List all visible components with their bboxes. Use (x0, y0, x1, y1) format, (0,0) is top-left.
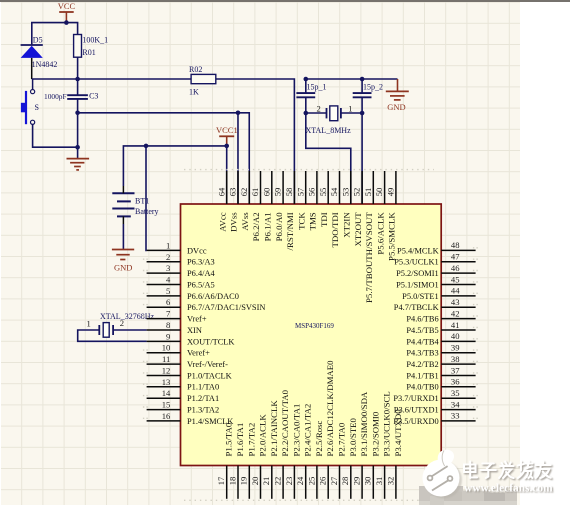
capacitor 15p_1 (296, 79, 326, 113)
svg-text:15: 15 (162, 400, 171, 410)
pin 40 (P4.4/TB4) (406, 331, 475, 346)
svg-text:MSP430F169: MSP430F169 (295, 322, 334, 330)
svg-text:3: 3 (166, 263, 170, 273)
svg-text:R01: R01 (82, 48, 95, 57)
svg-text:38: 38 (451, 354, 460, 364)
watermark logo (423, 450, 463, 499)
svg-text:1K: 1K (189, 87, 199, 96)
pin 53 (XT2IN) (340, 171, 351, 238)
svg-text:P1.2/TA1: P1.2/TA1 (187, 394, 219, 403)
svg-text:4: 4 (166, 275, 171, 285)
svg-text:P4.0/TB0: P4.0/TB0 (406, 383, 438, 392)
svg-text:49: 49 (386, 188, 396, 197)
power VCC (58, 1, 76, 22)
crystal XTAL_8MHz (306, 103, 363, 135)
svg-text:P2.4/CA1/TA2: P2.4/CA1/TA2 (303, 404, 313, 457)
svg-text:XT2IN: XT2IN (342, 212, 352, 238)
battery BT1 (112, 186, 158, 224)
resistor R01 (74, 35, 109, 80)
svg-text:47: 47 (451, 252, 460, 262)
svg-text:40: 40 (451, 331, 460, 341)
pin 35 (P3.7/URXD1) (393, 388, 475, 403)
pin 13 (P1.1/TA0) (147, 377, 220, 392)
wire crystal pin2 to XIN (pin 8) (113, 329, 147, 331)
svg-text:BT1: BT1 (135, 197, 149, 206)
svg-text:P4.4/TB4: P4.4/TB4 (406, 337, 439, 346)
node pin63 junction (236, 111, 241, 116)
svg-text:R02: R02 (189, 65, 202, 74)
pin 31 (P3.3/UCLK0/SCL) (374, 391, 392, 499)
svg-text:36: 36 (451, 377, 460, 387)
svg-text:P6.6/A6/DAC0: P6.6/A6/DAC0 (187, 292, 239, 301)
node R01/C3 junction (75, 77, 80, 82)
svg-text:54: 54 (329, 187, 339, 196)
ground (near C3) (67, 159, 90, 170)
svg-text:TDI: TDI (319, 212, 329, 227)
pin 24 (P2.4/CA1/TA2) (295, 404, 313, 499)
pin 7 (Vref+) (147, 309, 207, 324)
svg-text:32: 32 (385, 477, 395, 486)
svg-text:AVcc: AVcc (217, 212, 227, 231)
pin 21 (P2.1/TAINCLK) (261, 400, 279, 499)
svg-text:41: 41 (451, 320, 460, 330)
svg-text:34: 34 (451, 399, 460, 409)
pin 42 (P4.6/TB6) (406, 308, 475, 323)
pin 6 (P6.7/A7/DAC1/SVSIN) (147, 297, 266, 312)
pin 62 (AVss) (239, 171, 250, 231)
pin 30 (P3.2/SOMI0) (363, 411, 381, 499)
wire battery plus rail to pin 64 (123, 146, 226, 186)
watermark text 电子发烧友 (465, 463, 552, 480)
pin 38 (P4.2/TB2) (406, 354, 475, 369)
pin 26 (P2.6/ADC12CLK/DMAE0) (318, 360, 336, 499)
svg-text:60: 60 (261, 188, 271, 197)
pin 20 (P2.0/ACLK) (250, 414, 268, 499)
svg-text:1: 1 (166, 240, 170, 250)
svg-text:VCC1: VCC1 (216, 125, 238, 135)
pin 59 (P6.0/A0) (273, 171, 284, 241)
svg-text:P4.6/TB6: P4.6/TB6 (406, 315, 438, 324)
svg-text:P2.1/TAINCLK: P2.1/TAINCLK (269, 400, 279, 457)
svg-text:XIN: XIN (187, 326, 202, 335)
node VCC junction (64, 20, 69, 25)
svg-text:P6.7/A7/DAC1/SVSIN: P6.7/A7/DAC1/SVSIN (187, 303, 265, 312)
pin 11 (Vref-/Veref-) (147, 354, 228, 369)
svg-text:27: 27 (329, 476, 339, 485)
svg-text:www.elecfans.com: www.elecfans.com (464, 482, 553, 494)
pin 15 (P1.3/TA2) (147, 400, 220, 415)
resistor R02 (189, 65, 216, 96)
svg-text:9: 9 (166, 331, 170, 341)
svg-text:P5.6/ACLK: P5.6/ACLK (375, 212, 385, 255)
svg-text:P6.3/A3: P6.3/A3 (187, 258, 215, 267)
svg-text:P5.5/SMCLK: P5.5/SMCLK (387, 212, 397, 261)
svg-text:51: 51 (363, 188, 373, 197)
svg-text:37: 37 (451, 365, 460, 375)
svg-text:61: 61 (250, 188, 260, 197)
svg-text:P2.7/TA0: P2.7/TA0 (337, 422, 347, 456)
svg-text:P4.1/TB1: P4.1/TB1 (406, 371, 438, 380)
svg-text:P2.6/ADC12CLK/DMAE0: P2.6/ADC12CLK/DMAE0 (325, 360, 335, 457)
svg-text:P1.0/TACLK: P1.0/TACLK (187, 371, 232, 380)
svg-text:42: 42 (451, 308, 460, 318)
svg-text:P6.5/A5: P6.5/A5 (187, 280, 215, 289)
pin 14 (P1.2/TA1) (147, 388, 220, 403)
pin 12 (P1.0/TACLK) (147, 366, 232, 381)
svg-text:46: 46 (451, 263, 460, 273)
pin 60 (P6.1/A1) (261, 171, 272, 241)
pin 50 (P5.6/ACLK) (374, 171, 385, 255)
stub end grid dots (143, 170, 478, 501)
svg-text:/RST/NMI: /RST/NMI (285, 212, 295, 250)
wire DVss/AVss rail to pins 63,62 (78, 113, 250, 204)
pin 3 (P6.4/A4) (147, 263, 216, 278)
svg-text:52: 52 (352, 188, 362, 197)
svg-text:56: 56 (307, 187, 317, 196)
pin 44 (P5.0/STE1) (402, 286, 475, 301)
wire switch bottom to ground node (33, 124, 78, 147)
svg-text:35: 35 (451, 388, 460, 398)
pin 9 (XOUT/TCLK) (147, 331, 235, 346)
ground GND (battery) (112, 250, 134, 273)
svg-text:GND: GND (387, 102, 405, 112)
svg-text:30: 30 (363, 477, 373, 486)
svg-text:15p_1: 15p_1 (307, 83, 327, 92)
svg-text:TMS: TMS (308, 212, 318, 230)
svg-text:6: 6 (166, 297, 171, 307)
svg-text:33: 33 (451, 411, 460, 421)
pin 17 (P1.5/TA0) (216, 422, 234, 499)
svg-text:25: 25 (306, 477, 316, 486)
pin 16 (P1.4/SMCLK) (147, 411, 234, 426)
pin 34 (P3.6/UTXD1) (394, 399, 476, 414)
svg-text:17: 17 (216, 476, 226, 485)
svg-text:P4.3/TB3: P4.3/TB3 (406, 349, 438, 358)
svg-text:64: 64 (216, 187, 226, 196)
svg-text:P2.3/CA0/TA1: P2.3/CA0/TA1 (291, 404, 301, 457)
wire capacitor top rail (306, 78, 398, 80)
svg-text:100K_1: 100K_1 (82, 36, 108, 45)
svg-text:48: 48 (451, 240, 460, 250)
wire VCC rail (32, 23, 78, 45)
node pin1 drop junction (144, 144, 149, 149)
svg-text:31: 31 (374, 477, 384, 486)
svg-text:P3.0/STE0: P3.0/STE0 (348, 418, 358, 457)
svg-text:59: 59 (273, 188, 283, 197)
svg-text:43: 43 (451, 297, 460, 307)
wire ground drop (77, 113, 79, 159)
crystal XTAL_32768Hz (86, 312, 154, 337)
svg-text:14: 14 (162, 388, 171, 398)
svg-text:P1.3/TA2: P1.3/TA2 (187, 406, 219, 415)
svg-text:P3.7/URXD1: P3.7/URXD1 (393, 394, 438, 403)
pin 49 (P5.5/SMCLK) (386, 171, 397, 261)
svg-text:P2.0/ACLK: P2.0/ACLK (258, 414, 268, 457)
svg-text:TDO/TDI: TDO/TDI (330, 212, 340, 247)
svg-text:1N4842: 1N4842 (32, 60, 58, 69)
svg-text:15p_2: 15p_2 (363, 83, 383, 92)
pin 61 (P6.2/A2) (250, 171, 261, 241)
svg-text:AVss: AVss (240, 212, 250, 231)
pin 8 (XIN) (147, 320, 202, 335)
node C3 bottom junction (75, 111, 80, 116)
capacitor C3 (44, 79, 98, 113)
svg-text:XTAL_8MHz: XTAL_8MHz (306, 126, 352, 135)
pin 29 (P3.1/SIMO0/SDA) (352, 391, 370, 499)
switch S (21, 79, 39, 124)
pin 45 (P5.1/SIMO1) (396, 274, 475, 289)
wire R02 to pin 58 (/RST/NMI) (216, 79, 295, 204)
svg-text:5: 5 (166, 286, 170, 296)
svg-text:10: 10 (162, 343, 171, 353)
pin 28 (P3.0/STE0) (340, 418, 358, 499)
pin 64 (AVcc) (216, 171, 227, 232)
pin 33 (P3.5/URXD0) (393, 411, 475, 426)
node 15p_1 top junction (304, 77, 309, 82)
svg-text:8: 8 (166, 320, 170, 330)
pin 2 (P6.3/A3) (147, 252, 215, 267)
pin 63 (DVss) (228, 171, 239, 232)
svg-text:VCC: VCC (58, 1, 76, 11)
node VCC1/pin64 junction (224, 144, 229, 149)
svg-text:Vref-/Veref-: Vref-/Veref- (187, 360, 228, 369)
pin 1 (DVcc) (147, 240, 207, 255)
svg-text:21: 21 (261, 477, 271, 486)
node crystal right junction (360, 111, 365, 116)
svg-text:20: 20 (250, 477, 260, 486)
pin 27 (P2.7/TA0) (329, 422, 347, 499)
svg-text:29: 29 (352, 477, 362, 486)
svg-text:P5.0/STE1: P5.0/STE1 (402, 292, 439, 301)
diode D5 (21, 36, 58, 79)
svg-text:1000pF: 1000pF (44, 92, 67, 101)
pin 48 (P5.4/MCLK) (397, 240, 476, 255)
pin 46 (P5.2/SOMI1) (396, 263, 475, 278)
svg-text:XOUT/TCLK: XOUT/TCLK (187, 337, 234, 346)
pin 43 (P4.7/TBCLK) (394, 297, 476, 312)
wire crystal left to pin 53 (306, 113, 351, 204)
svg-text:2: 2 (317, 103, 321, 113)
svg-text:16: 16 (162, 411, 171, 421)
svg-text:P6.0/A0: P6.0/A0 (274, 212, 284, 242)
svg-text:P3.1/SIMO0/SDA: P3.1/SIMO0/SDA (359, 391, 369, 456)
svg-text:P3.4/UTXD0: P3.4/UTXD0 (393, 409, 403, 457)
node 15p_2 top junction (360, 77, 365, 82)
svg-text:P5.7/TBOUTH/SVSOUT: P5.7/TBOUTH/SVSOUT (364, 212, 374, 303)
svg-text:TCK: TCK (296, 212, 306, 230)
svg-text:P1.7/TA2: P1.7/TA2 (246, 423, 256, 457)
pin 36 (P4.0/TB0) (406, 377, 475, 392)
wire node-A rail (RST node) (32, 78, 191, 80)
svg-text:XTAL_32768Hz: XTAL_32768Hz (100, 312, 154, 321)
svg-text:Veref+: Veref+ (187, 349, 210, 358)
power VCC1 (216, 125, 238, 144)
svg-text:23: 23 (284, 477, 294, 486)
svg-text:Vref+: Vref+ (187, 315, 207, 324)
svg-text:P2.2/CAOUT/TA0: P2.2/CAOUT/TA0 (280, 389, 290, 456)
svg-text:28: 28 (340, 477, 350, 486)
svg-text:2: 2 (166, 252, 170, 262)
svg-text:39: 39 (451, 343, 460, 353)
svg-text:DVcc: DVcc (187, 246, 207, 255)
svg-text:7: 7 (166, 309, 171, 319)
svg-text:P6.2/A2: P6.2/A2 (251, 212, 261, 241)
wire crystal pin1 to XOUT (pin 9) (78, 330, 147, 341)
svg-text:55: 55 (318, 188, 328, 197)
svg-text:63: 63 (228, 188, 238, 197)
svg-text:1: 1 (348, 103, 352, 113)
svg-text:P5.3/UCLK1: P5.3/UCLK1 (394, 258, 438, 267)
pin 25 (P2.5/Rosc) (306, 420, 324, 498)
svg-text:S: S (35, 103, 39, 112)
svg-text:44: 44 (451, 286, 460, 296)
censored gray blocks (419, 486, 517, 505)
pin 5 (P6.6/A6/DAC0) (147, 286, 239, 301)
pin 57 (TCK) (295, 171, 306, 230)
node switch/ground junction (75, 145, 80, 150)
capacitor 15p_2 (353, 79, 383, 113)
svg-text:24: 24 (295, 476, 305, 485)
pin 58 (/RST/NMI) (284, 171, 295, 250)
svg-text:P1.5/TA0: P1.5/TA0 (224, 422, 234, 456)
svg-text:57: 57 (295, 187, 305, 196)
node crystal left junction (304, 111, 309, 116)
wire battery minus to ground (122, 224, 124, 250)
wire crystal right to pin 52 (361, 113, 363, 204)
svg-text:P5.2/SOMI1: P5.2/SOMI1 (396, 269, 439, 278)
svg-text:DVss: DVss (229, 212, 239, 232)
pin 51 (P5.7/TBOUTH/SVSOUT) (363, 171, 374, 303)
svg-text:53: 53 (340, 188, 350, 197)
svg-text:62: 62 (239, 188, 249, 197)
wire pin 1 (DVcc) drop (145, 146, 148, 251)
pin 32 (P3.4/UTXD0) (385, 409, 403, 499)
svg-text:P6.4/A4: P6.4/A4 (187, 269, 216, 278)
watermark text www.elecfans.com (464, 482, 554, 495)
svg-text:P2.5/Rosc: P2.5/Rosc (314, 420, 324, 456)
op-amp/microcontroller U1 MSP430F169 (181, 204, 442, 466)
svg-text:11: 11 (162, 354, 170, 364)
svg-text:22: 22 (273, 477, 283, 486)
svg-text:P4.7/TBCLK: P4.7/TBCLK (394, 303, 439, 312)
svg-text:P5.4/MCLK: P5.4/MCLK (397, 246, 439, 255)
pin 10 (Veref+) (147, 343, 211, 358)
pin 54 (TDO/TDI) (329, 171, 340, 247)
svg-text:P3.2/SOMI0: P3.2/SOMI0 (370, 411, 380, 456)
pin 55 (TDI) (318, 171, 329, 227)
svg-text:P4.5/TB5: P4.5/TB5 (406, 326, 438, 335)
svg-text:P5.1/SIMO1: P5.1/SIMO1 (396, 280, 439, 289)
power GND (top right) (386, 79, 409, 112)
svg-text:18: 18 (227, 477, 237, 486)
pin 52 (XT2OUT) (352, 171, 363, 247)
svg-text:13: 13 (162, 377, 171, 387)
pin 47 (P5.3/UCLK1) (394, 252, 475, 267)
pin 41 (P4.5/TB5) (406, 320, 475, 335)
svg-text:1: 1 (86, 319, 90, 329)
pin 39 (P4.3/TB3) (406, 343, 475, 358)
pin 23 (P2.3/CA0/TA1) (284, 404, 302, 499)
svg-text:50: 50 (374, 188, 384, 197)
wire pin 64 drop (226, 146, 228, 204)
svg-text:45: 45 (451, 274, 460, 284)
svg-text:P4.2/TB2: P4.2/TB2 (406, 360, 438, 369)
pin 19 (P1.7/TA2) (239, 423, 257, 499)
svg-text:19: 19 (239, 477, 249, 486)
pin 37 (P4.1/TB1) (406, 365, 475, 380)
svg-text:C3: C3 (89, 91, 98, 100)
svg-text:P1.1/TA0: P1.1/TA0 (187, 383, 219, 392)
pin 4 (P6.5/A5) (147, 275, 215, 290)
svg-text:D5: D5 (33, 36, 43, 45)
svg-text:12: 12 (162, 366, 171, 376)
svg-text:P1.6/TA1: P1.6/TA1 (235, 423, 245, 457)
pin 18 (P1.6/TA1) (227, 423, 245, 499)
pin 22 (P2.2/CAOUT/TA0) (273, 389, 291, 498)
svg-text:XT2OUT: XT2OUT (353, 212, 363, 247)
pin 56 (TMS) (307, 171, 318, 230)
svg-text:GND: GND (114, 262, 132, 272)
svg-text:26: 26 (318, 476, 328, 485)
svg-text:P6.1/A1: P6.1/A1 (263, 212, 273, 241)
svg-text:P3.3/UCLK0/SCL: P3.3/UCLK0/SCL (382, 391, 392, 456)
svg-text:58: 58 (284, 188, 294, 197)
